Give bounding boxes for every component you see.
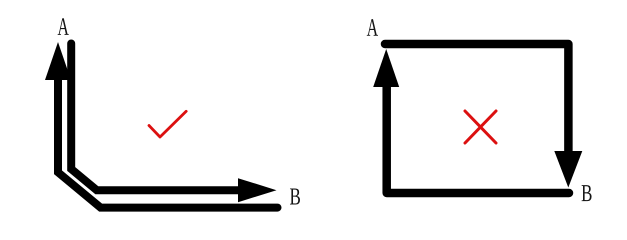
wire: inner trace, round top cap, vertical then 40-deg bend then upper horizontal to B arrow (left figure): [71, 44, 242, 191]
node label B (right figure): [582, 185, 592, 201]
arrowhead up at A (left figure): [45, 42, 71, 80]
arrowhead up toward A (right figure): [373, 49, 399, 87]
node label B (left figure): [290, 188, 300, 204]
node label A (left figure): [58, 18, 69, 35]
wire: bottom and left side of loop (right figure, round cap at B end): [387, 87, 569, 193]
red checkmark (left figure, correct routing): [149, 111, 186, 137]
node label A (right figure): [367, 19, 378, 36]
wire: outer trace from A arrow, vertical then 40-deg bend then bottom horizontal (left figure): [58, 78, 278, 208]
arrowhead right at B (left figure): [238, 178, 277, 202]
wire: top and right side of loop (right figure, round cap at A end): [385, 44, 568, 151]
arrowhead down toward B (right figure): [554, 151, 582, 188]
red X mark (right figure, wrong routing): [465, 111, 496, 143]
